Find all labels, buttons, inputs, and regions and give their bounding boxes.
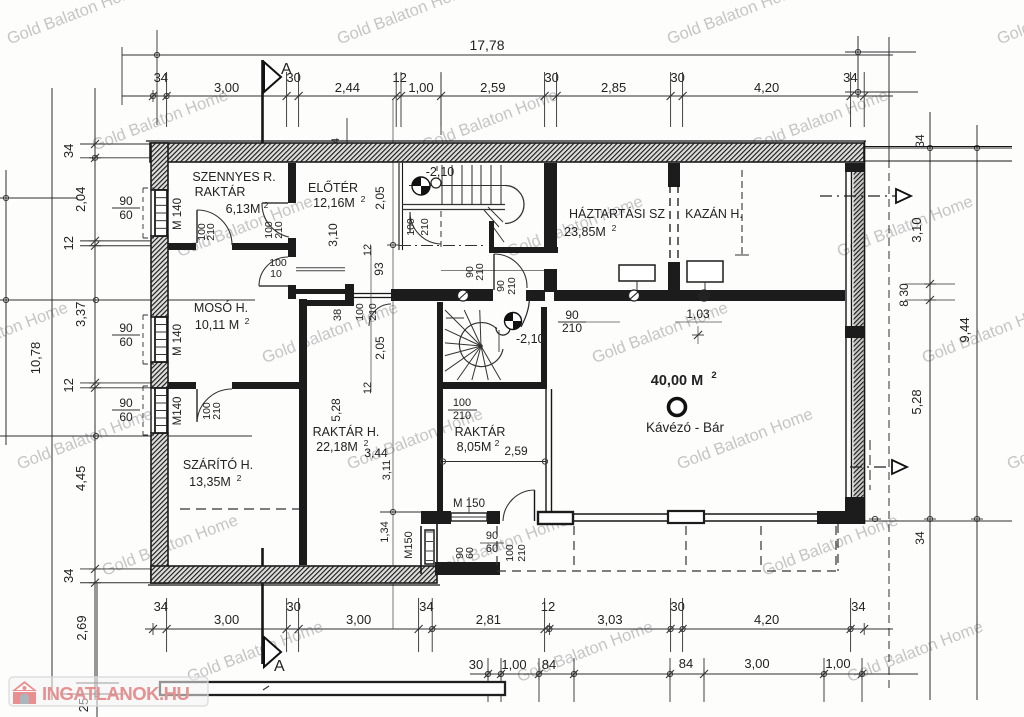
window M140 left wall y 190-236 <box>155 190 167 236</box>
wall V2: moso right upper <box>288 250 296 257</box>
svg-text:90: 90 <box>119 194 133 208</box>
svg-text:3,00: 3,00 <box>214 612 239 627</box>
svg-text:2: 2 <box>264 200 269 210</box>
svg-text:210: 210 <box>516 544 528 562</box>
svg-text:2,05: 2,05 <box>373 186 387 210</box>
corridor wall H3 mid segment <box>391 289 493 301</box>
svg-text:90: 90 <box>486 530 498 542</box>
svg-text:34: 34 <box>913 531 927 545</box>
bottom scale bar <box>160 682 505 695</box>
wall V1: szennyes right <box>288 163 296 203</box>
svg-text:60: 60 <box>486 543 498 555</box>
door 100/210 in V1 <box>262 202 288 204</box>
svg-text:210: 210 <box>367 303 379 321</box>
svg-text:A: A <box>274 658 285 675</box>
svg-text:2,44: 2,44 <box>335 80 360 95</box>
svg-text:23,85M: 23,85M <box>564 225 606 239</box>
wall between raktar h and raktar 8.05 <box>437 389 443 512</box>
svg-text:2: 2 <box>495 438 500 448</box>
svg-text:13,35M: 13,35M <box>189 475 231 489</box>
top-left guide verticals <box>156 30 158 125</box>
overall top dimension line 17,78 <box>122 54 893 56</box>
svg-text:3,00: 3,00 <box>346 612 371 627</box>
svg-text:2: 2 <box>361 194 366 204</box>
step wall with window M150 <box>420 526 422 574</box>
stair right wall I9 upper <box>544 163 557 249</box>
right top mini chain 34 <box>857 36 859 98</box>
svg-text:RAKTÁR: RAKTÁR <box>455 424 506 439</box>
door 100/210 in H2 <box>196 389 198 422</box>
bottom wall mid section with openings <box>421 511 451 524</box>
wall thickness dim 34 (top, near eloter) <box>346 118 348 155</box>
svg-text:60: 60 <box>119 410 133 424</box>
spiral stair room walls <box>437 302 443 389</box>
svg-text:34: 34 <box>154 599 168 614</box>
view arrow lower right <box>850 466 892 468</box>
svg-text:4,20: 4,20 <box>754 80 779 95</box>
svg-text:210: 210 <box>205 223 217 241</box>
spiral staircase <box>479 344 483 348</box>
view arrow upper right <box>820 195 896 197</box>
outer wall: bottom-left (hatched) <box>151 566 437 583</box>
window M140 left wall y 388-433 <box>155 388 167 433</box>
svg-text:3,10: 3,10 <box>909 217 924 242</box>
svg-text:8 30: 8 30 <box>897 283 911 307</box>
top chain ticks <box>152 90 154 102</box>
corridor horizontal guide y=270 <box>441 270 545 272</box>
I9 lower below door <box>544 269 557 292</box>
svg-text:60: 60 <box>119 208 133 222</box>
svg-text:M150: M150 <box>403 531 415 559</box>
bottom dimension chain 1 <box>145 628 893 630</box>
section line A top <box>261 60 264 161</box>
svg-text:17,78: 17,78 <box>469 37 504 53</box>
terrace edge lines top-right <box>864 146 1012 148</box>
svg-text:22,18M: 22,18M <box>316 440 358 454</box>
window pier 668-704 <box>668 511 704 523</box>
svg-text:210: 210 <box>273 221 285 239</box>
svg-text:34: 34 <box>419 599 433 614</box>
svg-text:84: 84 <box>679 656 693 671</box>
low wall segment 435-500 <box>435 562 500 575</box>
outer wall: left segments (hatched) <box>151 143 168 190</box>
interior vertical dim string x=393 <box>392 100 394 629</box>
svg-text:3,10: 3,10 <box>326 223 340 247</box>
wall V3: szarito right <box>299 299 307 565</box>
svg-text:12: 12 <box>362 382 374 394</box>
svg-text:-2,10: -2,10 <box>516 332 545 346</box>
section line A bottom <box>261 548 264 664</box>
svg-text:2: 2 <box>237 473 242 483</box>
svg-text:10,11 M: 10,11 M <box>195 318 239 332</box>
radiator 2 <box>687 261 723 282</box>
right dimension lines <box>888 37 890 160</box>
svg-text:1,03: 1,03 <box>686 307 710 321</box>
vent symbol on H3 <box>458 290 469 301</box>
svg-text:12,16M: 12,16M <box>313 196 355 210</box>
window M140 left wall y 317-362 <box>155 317 167 362</box>
svg-text:210: 210 <box>506 277 518 295</box>
svg-text:34: 34 <box>154 70 168 85</box>
stair bottom wall <box>489 247 558 253</box>
svg-text:MOSÓ H.: MOSÓ H. <box>194 300 248 315</box>
svg-text:3,03: 3,03 <box>597 612 622 627</box>
svg-text:1,34: 1,34 <box>379 521 391 542</box>
svg-text:38: 38 <box>332 309 344 321</box>
svg-text:100: 100 <box>405 218 417 236</box>
right chain ticks <box>924 147 936 149</box>
svg-text:6,13M: 6,13M <box>226 202 261 216</box>
glazed band bottom <box>574 513 817 515</box>
svg-text:2: 2 <box>612 223 617 233</box>
svg-text:1,00: 1,00 <box>408 80 433 95</box>
outer wall: top (hatched) <box>150 143 864 162</box>
svg-text:34: 34 <box>913 134 927 148</box>
section marker A triangle bottom <box>264 637 281 667</box>
svg-text:1,00: 1,00 <box>825 656 850 671</box>
spiral curve <box>459 323 503 367</box>
svg-text:ELŐTÉR: ELŐTÉR <box>308 180 358 195</box>
svg-text:SZÁRÍTÓ H.: SZÁRÍTÓ H. <box>183 457 253 472</box>
svg-text:90: 90 <box>119 396 133 410</box>
flue dashed kazan <box>741 170 743 258</box>
svg-text:93: 93 <box>372 262 386 276</box>
door 90/210 in H3 (leaf up) <box>493 254 495 290</box>
svg-text:210: 210 <box>562 321 582 335</box>
corridor wall H3 left band <box>290 289 354 294</box>
dashed line in szarito <box>180 508 299 510</box>
svg-text:4,20: 4,20 <box>754 612 779 627</box>
svg-text:2,59: 2,59 <box>504 444 528 458</box>
wall H1: szennyes bottom <box>168 243 196 250</box>
svg-text:2,81: 2,81 <box>476 612 501 627</box>
stair rail U curve <box>505 186 524 224</box>
svg-text:4,45: 4,45 <box>73 466 88 491</box>
svg-text:2: 2 <box>245 316 250 326</box>
svg-text:100: 100 <box>504 544 516 562</box>
svg-text:34: 34 <box>61 144 76 158</box>
moso sill double lines <box>296 267 345 269</box>
outlined pier box 538-573 <box>538 512 573 524</box>
dim line x=371 <box>370 246 372 392</box>
svg-text:KAZÁN H.: KAZÁN H. <box>685 206 743 221</box>
door 100/210 in H1 <box>196 210 198 243</box>
svg-text:INGATLANOK.HU: INGATLANOK.HU <box>42 683 189 704</box>
handrail center line <box>409 185 505 187</box>
svg-text:12: 12 <box>541 599 555 614</box>
svg-text:9,44: 9,44 <box>957 317 972 342</box>
left chain ticks <box>89 143 101 145</box>
svg-text:HÁZTARTÁSI SZ: HÁZTARTÁSI SZ <box>569 206 665 221</box>
window M150 bottom <box>451 513 487 521</box>
svg-text:84: 84 <box>542 657 556 672</box>
bottom dimension chain 2 <box>470 673 918 675</box>
svg-text:10: 10 <box>270 268 282 280</box>
svg-text:12: 12 <box>392 70 406 85</box>
opening 100/10 <box>259 257 288 286</box>
svg-text:12: 12 <box>362 244 374 256</box>
svg-text:90: 90 <box>565 308 579 322</box>
column symbol <box>669 399 686 416</box>
ingatlanok.hu logo plate <box>9 677 208 706</box>
svg-text:A: A <box>281 61 292 78</box>
svg-text:M140: M140 <box>172 397 184 426</box>
svg-text:3,11: 3,11 <box>381 460 393 481</box>
door in bottom wall (500-538) <box>534 490 536 521</box>
svg-text:30: 30 <box>469 657 483 672</box>
level symbol spiral <box>505 313 522 330</box>
svg-text:210: 210 <box>474 263 486 281</box>
right outer wall glazed <box>845 165 847 511</box>
svg-text:M 140: M 140 <box>172 198 184 230</box>
svg-text:-2,10: -2,10 <box>426 165 455 179</box>
svg-text:90: 90 <box>119 321 133 335</box>
svg-text:100: 100 <box>453 397 471 409</box>
small arc at glazed opening <box>369 304 391 326</box>
svg-text:2: 2 <box>711 370 716 381</box>
dashed terrace outline below <box>497 570 838 572</box>
svg-text:40,00 M: 40,00 M <box>651 373 703 389</box>
svg-text:210: 210 <box>453 410 471 422</box>
svg-text:1,00: 1,00 <box>501 657 526 672</box>
top dimension chain <box>122 95 893 97</box>
kavezo left wall lower (double thin) <box>545 389 547 512</box>
svg-text:2,69: 2,69 <box>74 615 89 640</box>
svg-text:3,44: 3,44 <box>364 446 388 460</box>
kazan partition dashed <box>668 163 680 187</box>
svg-text:12: 12 <box>61 236 76 250</box>
svg-text:Kávézó - Bár: Kávézó - Bár <box>646 420 725 435</box>
logo house icon <box>12 681 37 704</box>
svg-text:34: 34 <box>851 599 865 614</box>
landing tread line <box>446 317 464 319</box>
svg-text:RAKTÁR: RAKTÁR <box>195 184 246 199</box>
svg-text:8,05M: 8,05M <box>457 440 492 454</box>
svg-text:60: 60 <box>464 547 476 559</box>
winder treads under curve <box>488 207 503 222</box>
level symbol upper stair <box>412 177 430 195</box>
svg-text:60: 60 <box>119 335 133 349</box>
svg-text:34: 34 <box>61 569 76 583</box>
svg-text:2,85: 2,85 <box>601 80 626 95</box>
stair left edge double line <box>398 163 400 250</box>
svg-text:2,04: 2,04 <box>73 187 88 212</box>
raktar h top wall band <box>302 300 345 306</box>
svg-text:5,28: 5,28 <box>329 398 343 422</box>
svg-text:3,00: 3,00 <box>214 80 239 95</box>
svg-text:210: 210 <box>211 402 223 420</box>
glazed opening in H3 (354-391) <box>354 293 391 295</box>
left guide horizontals <box>0 197 78 199</box>
svg-text:2,05: 2,05 <box>373 336 387 360</box>
svg-text:5,28: 5,28 <box>909 389 924 414</box>
svg-text:3,00: 3,00 <box>744 656 769 671</box>
svg-text:100: 100 <box>354 303 366 321</box>
svg-text:12: 12 <box>61 378 76 392</box>
svg-text:RAKTÁR H.: RAKTÁR H. <box>313 424 380 439</box>
dashed flight edge <box>440 211 442 247</box>
svg-text:210: 210 <box>419 218 431 236</box>
svg-text:SZENNYES R.: SZENNYES R. <box>192 170 275 184</box>
upper staircase treads <box>441 165 443 204</box>
svg-text:2,59: 2,59 <box>480 80 505 95</box>
radiator 1 <box>619 265 655 281</box>
stair wall stub and bottom wall <box>489 221 494 247</box>
svg-text:3,37: 3,37 <box>73 302 88 327</box>
left dimension lines <box>94 88 96 700</box>
wall H2: moso bottom <box>168 382 196 389</box>
eloter door arc under stair <box>409 212 411 232</box>
kazan room bottom wall I11 <box>554 290 845 301</box>
pier at 345 <box>345 284 354 306</box>
section marker A triangle top <box>264 62 281 92</box>
svg-text:10,78: 10,78 <box>28 342 43 375</box>
svg-text:2: 2 <box>364 438 369 448</box>
svg-text:M 140: M 140 <box>172 324 184 356</box>
landing edge double line <box>402 204 505 206</box>
